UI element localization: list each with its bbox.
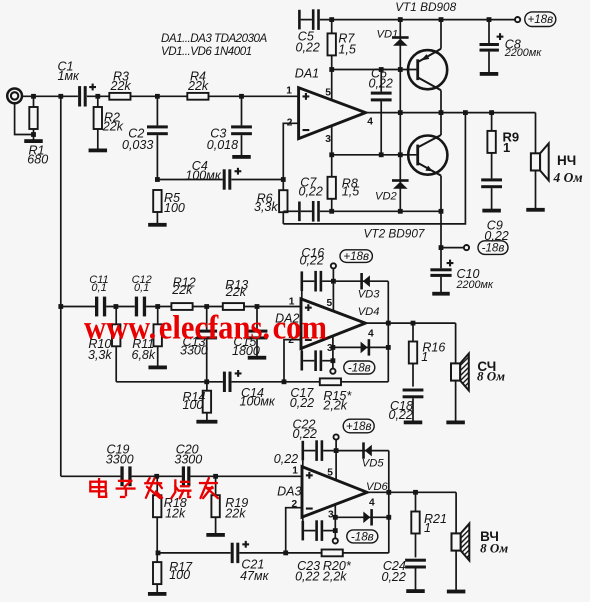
svg-text:2200мк: 2200мк: [456, 279, 494, 291]
svg-text:VD1: VD1: [377, 28, 399, 40]
svg-text:22k: 22k: [225, 285, 247, 299]
svg-text:4: 4: [368, 328, 374, 339]
svg-text:2,2k: 2,2k: [322, 570, 347, 584]
svg-text:1: 1: [421, 350, 428, 364]
svg-text:DA3: DA3: [277, 485, 301, 499]
svg-text:22k: 22k: [187, 79, 209, 93]
svg-text:100мк: 100мк: [240, 394, 276, 408]
svg-text:1,5: 1,5: [338, 43, 355, 57]
svg-text:0,22: 0,22: [369, 76, 393, 90]
svg-text:1: 1: [424, 521, 431, 535]
svg-text:22k: 22k: [171, 283, 193, 297]
svg-text:0,22: 0,22: [296, 40, 320, 54]
svg-text:-18в: -18в: [351, 530, 374, 543]
svg-text:680: 680: [27, 153, 48, 167]
svg-text:1мк: 1мк: [58, 69, 81, 83]
svg-text:3,3k: 3,3k: [88, 348, 112, 362]
svg-text:VD6: VD6: [366, 481, 389, 493]
svg-text:6,8k: 6,8k: [132, 348, 156, 362]
svg-text:НЧ: НЧ: [557, 153, 576, 168]
svg-text:1: 1: [292, 466, 298, 477]
svg-text:5: 5: [325, 87, 331, 98]
svg-text:4 Ом: 4 Ом: [553, 170, 583, 185]
svg-text:3300: 3300: [174, 452, 202, 466]
svg-text:22k: 22k: [110, 79, 132, 93]
svg-text:0,22: 0,22: [389, 408, 413, 422]
svg-text:0,22: 0,22: [274, 452, 298, 466]
svg-text:3300: 3300: [106, 452, 134, 466]
svg-text:0,033: 0,033: [122, 138, 153, 152]
svg-text:0,22: 0,22: [290, 396, 314, 410]
svg-text:22k: 22k: [102, 119, 124, 133]
svg-text:1800: 1800: [232, 344, 260, 358]
svg-text:0,22: 0,22: [295, 570, 319, 584]
svg-text:1,5: 1,5: [342, 185, 359, 199]
svg-text:0,22: 0,22: [300, 254, 324, 268]
svg-text:VT1 BD908: VT1 BD908: [395, 0, 456, 14]
svg-text:0,22: 0,22: [382, 570, 406, 584]
svg-text:0,1: 0,1: [134, 282, 149, 294]
svg-text:1: 1: [503, 140, 510, 155]
svg-text:0,22: 0,22: [484, 229, 508, 243]
svg-text:VD5: VD5: [362, 458, 385, 470]
svg-text:2: 2: [287, 118, 293, 129]
svg-text:VT2 BD907: VT2 BD907: [364, 226, 425, 240]
svg-text:3: 3: [327, 343, 333, 354]
svg-text:VD1...VD6 1N4001: VD1...VD6 1N4001: [161, 45, 252, 58]
svg-text:5: 5: [327, 298, 333, 309]
svg-text:100мк: 100мк: [185, 169, 221, 183]
svg-text:4: 4: [369, 497, 375, 508]
svg-text:2,2k: 2,2k: [322, 399, 347, 413]
svg-text:4: 4: [367, 117, 373, 128]
svg-text:+18в: +18в: [527, 13, 553, 26]
svg-text:22k: 22k: [224, 507, 246, 521]
svg-text:12k: 12k: [165, 507, 186, 521]
svg-text:+18в: +18в: [343, 250, 369, 263]
svg-text:8 Ом: 8 Ом: [477, 369, 505, 384]
svg-text:2200мк: 2200мк: [504, 47, 542, 59]
svg-text:VD2: VD2: [375, 191, 398, 203]
svg-text:8 Ом: 8 Ом: [480, 540, 508, 555]
svg-text:100: 100: [183, 398, 204, 412]
svg-text:DA1: DA1: [295, 66, 319, 80]
svg-text:5: 5: [327, 468, 333, 479]
svg-text:+18в: +18в: [346, 420, 372, 433]
svg-text:100: 100: [164, 201, 185, 215]
svg-text:47мк: 47мк: [240, 569, 269, 583]
svg-text:3: 3: [325, 134, 331, 145]
svg-text:VD3: VD3: [358, 289, 381, 301]
svg-text:3: 3: [328, 510, 334, 521]
svg-text:0,018: 0,018: [207, 138, 238, 152]
svg-text:www. elecfans. com: www. elecfans. com: [84, 308, 327, 346]
svg-text:3,3k: 3,3k: [254, 200, 278, 214]
svg-text:1: 1: [286, 86, 292, 97]
svg-text:100: 100: [169, 568, 190, 582]
svg-text:0,1: 0,1: [91, 282, 106, 294]
svg-text:1: 1: [289, 297, 295, 308]
svg-text:0,22: 0,22: [299, 185, 323, 199]
svg-text:0,22: 0,22: [293, 427, 317, 441]
svg-text:2: 2: [292, 499, 298, 510]
svg-text:-18в: -18в: [348, 362, 371, 375]
svg-text:VD4: VD4: [358, 306, 380, 318]
svg-text:-18в: -18в: [482, 242, 505, 255]
svg-text:DA1...DA3 TDA2030A: DA1...DA3 TDA2030A: [161, 32, 267, 45]
